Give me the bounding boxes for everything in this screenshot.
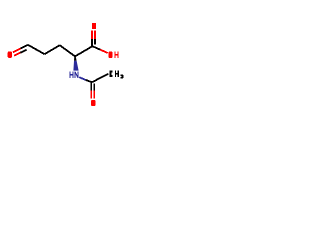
carboxyl C=O second line (red half) [94, 31, 96, 39]
amide C=O second line (red half) [93, 90, 95, 98]
bond N-C7 amide (blue half) [79, 77, 85, 80]
bond C6-OH (black half) [92, 46, 100, 49]
wire bond C4-C6 carboxyl [75, 46, 93, 57]
atom label O aldehyde [8, 52, 12, 58]
atom label CH3 : subscript 3 [121, 74, 124, 78]
atom label OH : H [115, 52, 118, 58]
bond N-C7 amide (black half) [86, 80, 92, 82]
stereo wedge C4-N (blue lower half) [73, 61, 78, 71]
aldehyde double bond C1=O main line (red half) [13, 49, 21, 53]
carboxyl C=O second line (black half) [94, 39, 96, 44]
atom label HN : H [70, 72, 73, 78]
aldehyde double bond C1=O main line (black half) [21, 45, 29, 49]
atom label OH : O [108, 52, 112, 58]
atom label O carboxyl [92, 23, 96, 29]
atom label HN : N [75, 72, 78, 78]
carboxyl C=O main line (red half) [91, 31, 93, 39]
bond C6-OH (red half) [100, 50, 108, 53]
wire bond C1-C2 [28, 45, 45, 54]
wire bond C2-C3 [45, 45, 60, 54]
amide C=O main line (red half) [90, 90, 92, 98]
atom label CH3 : C [109, 71, 112, 77]
amide C=O main line (black half) [90, 82, 92, 90]
atom label CH3 : H [115, 71, 118, 77]
aldehyde double bond inner line (black half) [20, 50, 26, 53]
amide C=O second line (black half) [93, 84, 95, 91]
aldehyde double bond inner line (red half) [14, 53, 20, 56]
bond C7-CH3 [92, 74, 108, 82]
stereo wedge C4-N (black upper half) [74, 56, 77, 60]
atom label O amide [91, 100, 95, 106]
carboxyl C=O main line (black half) [91, 39, 93, 46]
wire bond C3-C4 alpha [60, 45, 76, 57]
